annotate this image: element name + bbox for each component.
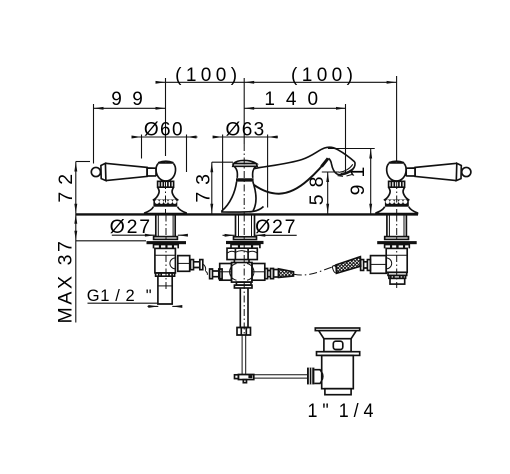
drain bottom tail (325, 389, 351, 395)
svg-text:72: 72 (55, 167, 77, 203)
drain funnel (319, 331, 357, 339)
spout neck (234, 166, 256, 178)
svg-text:Ø60: Ø60 (144, 119, 184, 140)
dimension line dia27 centre (223, 234, 297, 237)
tailpipe (240, 288, 248, 328)
svg-text:91: 91 (347, 160, 369, 196)
hose break squiggle (203, 264, 208, 275)
SPOUT (above deck) (222, 144, 355, 214)
braided hose end right (279, 269, 294, 278)
wide flange bar (377, 241, 417, 244)
base skirt (376, 207, 418, 214)
drain upper body (324, 339, 351, 352)
horizontal lever rod (254, 375, 307, 378)
notched nut (389, 275, 406, 278)
svg-text:1 " 1 / 4: 1 " 1 / 4 (308, 401, 374, 422)
left port ferrule (210, 269, 223, 279)
dimension line dia60 (132, 136, 198, 139)
dimension line 58 (322, 172, 339, 214)
handle knob (462, 167, 471, 176)
wide flange bar (147, 241, 187, 244)
svg-text:140: 140 (264, 89, 329, 110)
ball joint (156, 164, 175, 181)
port hex nut (371, 256, 387, 274)
drain knob boss (314, 370, 322, 384)
dimension line dia27 left (112, 234, 188, 237)
compression ferrule (361, 260, 371, 271)
rod clamp (238, 375, 253, 380)
mounting hex nut (227, 248, 257, 259)
right port ferrule (265, 269, 274, 279)
threaded shank (156, 215, 175, 237)
dimension line dia63 (213, 136, 278, 139)
spout cap dome (234, 160, 257, 163)
ball cap (389, 161, 405, 163)
knob collar (456, 163, 461, 180)
spout bell body (222, 182, 254, 212)
bottom nut (156, 273, 175, 276)
body port bulge (386, 258, 392, 269)
T body (232, 263, 253, 283)
flexible hose dash-dot curve (294, 266, 336, 275)
lever neck (147, 167, 156, 176)
spout cap rim (233, 164, 257, 167)
drain lower body (322, 355, 354, 388)
collar below right valve (388, 272, 407, 275)
RIGHT HANDLE (above deck, mirrored) (376, 161, 471, 213)
left port hex (220, 264, 232, 281)
notched nut (158, 181, 174, 187)
dimension line 72 (74, 162, 90, 214)
pop-up rod (242, 335, 246, 375)
svg-text:73: 73 (193, 167, 215, 203)
dimension line 140 (244, 107, 346, 110)
compression ferrule (191, 260, 203, 270)
shank washer (234, 237, 257, 240)
base skirt (145, 207, 187, 214)
lever cone (415, 163, 457, 180)
deck / mounting surface line (76, 213, 418, 215)
drain top flange (315, 328, 359, 331)
pipe hex collar (237, 328, 251, 336)
centre line right valve (396, 215, 398, 289)
dimension line 73 (210, 162, 233, 214)
notched nut (389, 181, 405, 187)
threaded shank (387, 215, 407, 237)
spout outlet mouth (329, 158, 356, 174)
lever cone (105, 163, 147, 180)
flange nubs (231, 245, 260, 249)
LEFT HANDLE (above deck) (91, 161, 186, 213)
bottom cap (390, 278, 405, 284)
svg-text:G1 / 2 ": G1 / 2 " (87, 287, 152, 305)
spout outlet hatches (338, 175, 353, 177)
svg-text:Ø27: Ø27 (255, 216, 297, 238)
valve body (155, 248, 176, 273)
dimension line 99 (94, 107, 166, 110)
centre line handle (165, 182, 167, 214)
shank washer (154, 237, 178, 240)
braided hose mid section (336, 257, 361, 274)
svg-text:MAX 37: MAX 37 (54, 239, 76, 324)
ball cap (158, 161, 174, 163)
dimension line (100)+(100) (156, 81, 397, 84)
spout arm lower contour (254, 158, 328, 193)
ball joint (387, 164, 406, 181)
flange nubs (385, 245, 410, 249)
hose thin tail (332, 265, 336, 273)
extension line 140 right (345, 104, 347, 173)
POP-UP DRAIN (307, 328, 360, 395)
LEFT VALVE (below deck) (147, 215, 208, 305)
beaded ring (385, 200, 409, 207)
centre line left valve (165, 215, 167, 291)
port hex nut (178, 256, 190, 272)
right port hex (252, 264, 265, 281)
body port bulge (170, 258, 176, 269)
bonnet (384, 187, 410, 200)
extension line right handle centre (396, 76, 398, 162)
centre line spout (243, 144, 245, 214)
drain mid flange (317, 352, 360, 356)
spout waist band (236, 178, 254, 181)
flange nubs (154, 245, 179, 249)
svg-text:99: 99 (111, 89, 153, 110)
wide flange bar (226, 241, 264, 244)
spout bell foot curve (250, 185, 264, 212)
extension line 99 left (93, 104, 95, 164)
drain knob (307, 368, 314, 385)
svg-text:Ø63: Ø63 (226, 119, 266, 140)
right hose nipple (274, 270, 279, 278)
dimension arrows G1/2 (148, 305, 183, 308)
bonnet (153, 187, 179, 200)
spout outlet rims (339, 164, 355, 173)
nut neck (234, 260, 249, 263)
extension lines dia60 (141, 135, 143, 159)
RIGHT VALVE (below deck) (332, 215, 417, 289)
beaded ring (153, 200, 177, 207)
valve body (386, 248, 407, 272)
threaded shank (236, 215, 255, 237)
G1/2 tailpiece (158, 276, 172, 304)
centre line mixer (243, 215, 245, 336)
svg-text:(100): (100) (291, 65, 357, 86)
drain window (333, 341, 343, 349)
extension line left handle centre (165, 78, 167, 156)
dimension line MAX 37 (74, 214, 146, 323)
handle knob (91, 167, 100, 176)
shank washer (385, 237, 409, 240)
spout arm upper contour (255, 147, 355, 168)
dimension line 91 (328, 149, 375, 214)
centre line handle (396, 182, 398, 214)
collar below body (236, 282, 251, 285)
extension lines dia63 (222, 135, 224, 213)
CENTRE MIXER BODY (below deck) (210, 215, 377, 383)
knob collar (101, 163, 106, 180)
svg-text:(100): (100) (175, 65, 241, 86)
svg-text:58: 58 (306, 170, 328, 206)
spout chin accent (322, 158, 329, 166)
svg-text:Ø27: Ø27 (110, 216, 152, 238)
lever neck (406, 167, 415, 176)
extension line spout centre (243, 78, 245, 144)
